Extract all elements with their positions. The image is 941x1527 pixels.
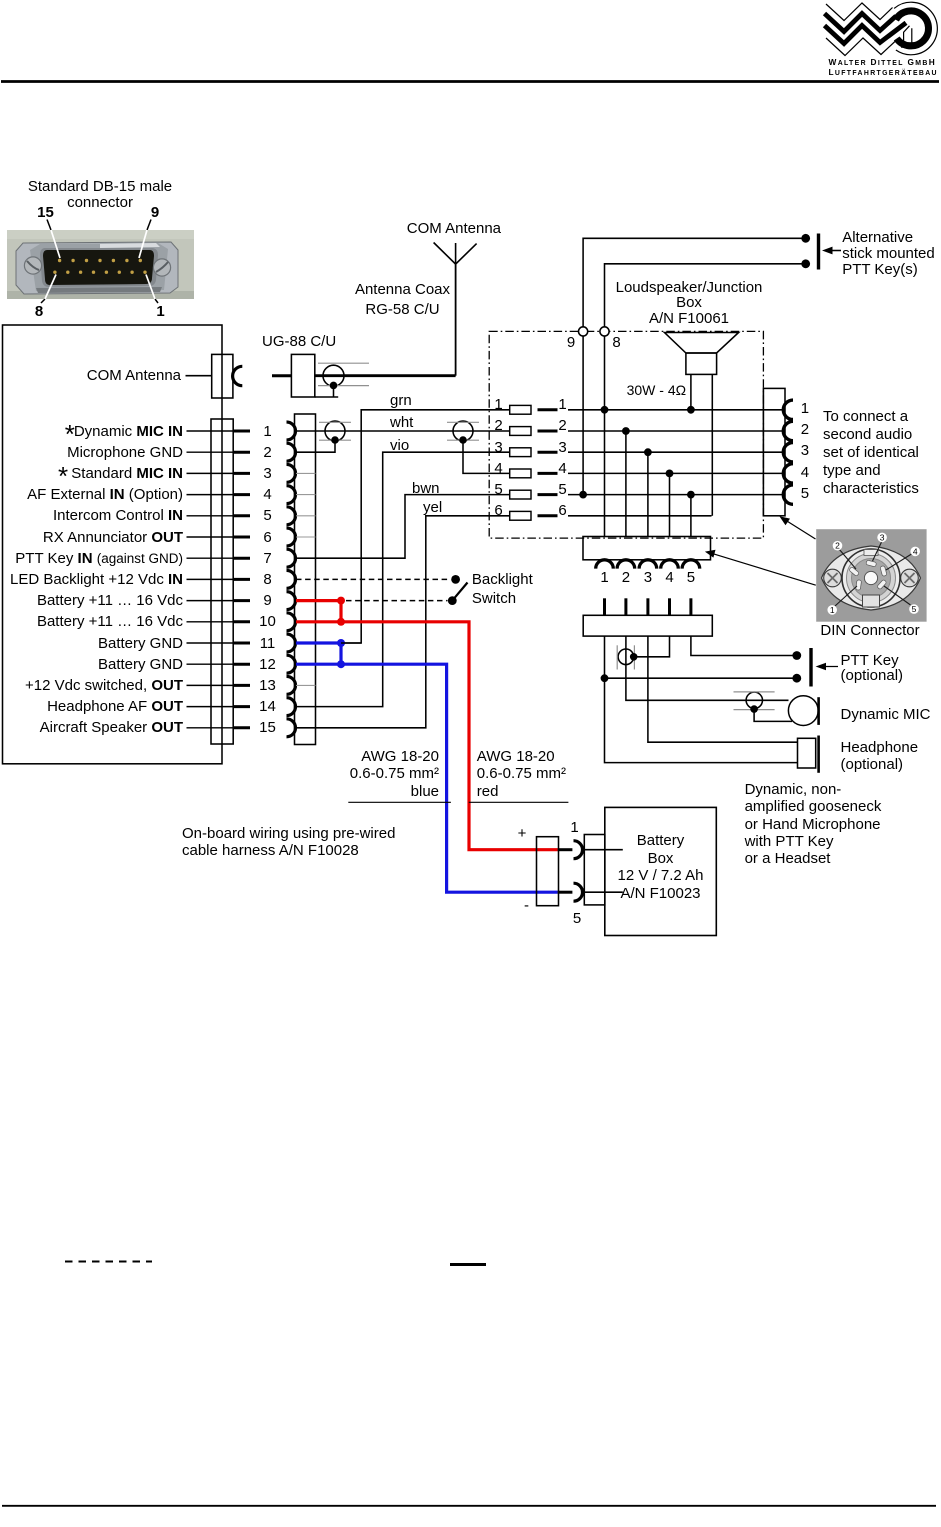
stick PTT key bar xyxy=(817,234,820,270)
wire vio junction 3 to pin 14 xyxy=(296,452,510,706)
wire shield pigtail to junction 4 xyxy=(463,440,510,473)
wire shield pigtail to pin2 xyxy=(296,440,335,452)
DIN tap 5 xyxy=(690,495,692,537)
label alternative stick PTT xyxy=(842,230,935,278)
battery box label xyxy=(590,832,731,903)
svg-text:2: 2 xyxy=(835,541,840,551)
DB-15 pin 8 stub xyxy=(233,578,250,581)
DB-15 female pin 3 unused stub xyxy=(296,472,316,474)
DIN keyway bottom xyxy=(863,595,880,607)
svg-text:5: 5 xyxy=(912,604,917,614)
second audio connector body xyxy=(763,388,785,515)
label Headphone optional xyxy=(841,739,919,774)
loudspeaker horn xyxy=(665,333,739,354)
photo screw right xyxy=(153,259,170,276)
wire PTT low xyxy=(605,677,797,679)
label on-board wiring xyxy=(182,826,395,860)
svg-text:4: 4 xyxy=(913,546,918,556)
page top rule xyxy=(1,80,939,83)
second audio connector numbers xyxy=(795,400,814,417)
caption standard DB-15 xyxy=(20,178,180,195)
DB-15 female socket 3 arc xyxy=(287,464,296,482)
battery socket arcs xyxy=(574,841,583,859)
backlight switch label xyxy=(472,570,533,609)
logo Walter Dittel WD mark xyxy=(826,3,893,21)
battery plus minus xyxy=(508,825,536,842)
loudspeaker wire right xyxy=(711,374,713,515)
legend solid sample xyxy=(450,1263,486,1266)
photo pin labels xyxy=(31,204,60,221)
junction row 3 xyxy=(568,451,784,453)
junction bulkhead pass-through 9 xyxy=(579,327,588,336)
wire dashed pin 9 branch to switch xyxy=(346,600,448,602)
DB-15 female socket 9 arc xyxy=(287,592,296,610)
junction box dash-dot border xyxy=(489,331,763,538)
label to connect second audio xyxy=(823,408,919,498)
DB-15 pin 15 stub xyxy=(233,726,250,729)
wire to stick PTT upper xyxy=(583,238,806,326)
battery pin lines xyxy=(583,849,623,851)
headphone symbol xyxy=(798,738,816,768)
PTT optional key bar xyxy=(809,648,812,687)
wire mic shield pigtail xyxy=(754,709,792,721)
DB-15 pin 11 stub xyxy=(233,642,250,645)
DB-15 female socket 2 arc xyxy=(287,443,296,461)
junction dots xyxy=(601,406,609,414)
COM antenna connector J-ANT xyxy=(212,354,233,398)
DB-15 pin 9 stub xyxy=(233,599,250,602)
DIN keyway top xyxy=(864,550,878,556)
label DIN Connector xyxy=(820,622,920,639)
backlight switch contact upper xyxy=(451,575,460,584)
DB-15 pin 1 lead line xyxy=(187,430,234,432)
DB-15 female socket 11 arc xyxy=(287,634,296,652)
photo leader line pin8 xyxy=(41,299,45,303)
DB-15 female socket 5 arc xyxy=(287,507,296,525)
DB-15 pin 4 stub xyxy=(233,493,250,496)
junction lug numbers left xyxy=(489,396,508,413)
wire yel pin 15 to junction 6 xyxy=(296,516,510,728)
DB-15 pin 14 stub xyxy=(233,705,250,708)
wire link grn vertical to blue strap xyxy=(341,642,361,644)
junction row 6 xyxy=(568,515,712,517)
wire red battery+ pin 10 to battery box xyxy=(296,622,558,850)
DB-15 female socket 8 arc xyxy=(287,570,296,588)
second audio socket arcs 1-5 xyxy=(783,400,793,419)
loudspeaker wire left xyxy=(690,374,692,409)
backlight switch lever xyxy=(452,583,467,601)
wire 8 down to DIN 1 xyxy=(604,336,606,537)
DIN screw right xyxy=(901,569,919,587)
wire 9 down to row 5 xyxy=(582,336,584,495)
label Antenna Coax xyxy=(323,280,483,320)
label dynamic gooseneck block xyxy=(745,781,882,867)
backlight switch contact lower xyxy=(448,596,457,605)
DB-15 female socket 1 arc xyxy=(287,422,296,440)
UG-88 shield twist symbol xyxy=(323,365,344,386)
junction row 5 xyxy=(568,494,784,496)
DIN number callout lines xyxy=(835,541,912,606)
photo leader line pin15 xyxy=(47,220,51,231)
wire grn junction 1 to battery-gnd strap xyxy=(341,410,510,643)
DB-15 pin 12 lead line xyxy=(187,663,234,665)
DB-15 pin 8 lead line xyxy=(187,578,234,580)
label UG-88 xyxy=(262,333,336,350)
PTT optional contact dots xyxy=(792,651,801,660)
DB-15 pin 7 stub xyxy=(233,557,250,560)
wire bwn pin 7 to junction 5 xyxy=(296,495,510,559)
DB-15 female pin 13 unused stub xyxy=(296,684,316,686)
DB-15 pin 6 stub xyxy=(233,536,250,539)
node DIN1 / PTT low junction xyxy=(601,674,609,682)
wire COM Antenna label leader xyxy=(186,375,212,377)
label AWG blue xyxy=(239,748,439,801)
label loudspeaker junction box xyxy=(609,280,769,327)
wire shield to DIN4 xyxy=(634,636,670,657)
DB-15 pin 12 stub xyxy=(233,663,250,666)
DIN tap 2 xyxy=(625,431,627,537)
DB-15 female socket 12 arc xyxy=(287,655,296,673)
DIN screw left xyxy=(824,569,842,587)
DB-15 pin 14 lead line xyxy=(187,706,234,708)
DIN plug body xyxy=(583,537,711,560)
wire to stick PTT lower xyxy=(605,264,806,327)
DIN number bubbles xyxy=(827,532,920,615)
DB-15 pin 2 stub xyxy=(233,451,250,454)
DB-15 pin 10 stub xyxy=(233,620,250,623)
DB-15 pin 6 lead line xyxy=(187,536,234,538)
DB-15 female socket 15 arc xyxy=(287,719,296,737)
antenna arms xyxy=(434,243,477,265)
DB-15 female pin 5 unused stub xyxy=(296,515,316,517)
DB-15 pin 10 lead line xyxy=(187,621,234,623)
DB-15 pin labels xyxy=(0,423,183,440)
page bottom rule xyxy=(2,1505,936,1507)
DB-15 female connector column xyxy=(295,414,316,745)
wire blue battery gnd pin 11 xyxy=(296,641,341,644)
DB-15 pin 1 stub xyxy=(233,430,250,433)
photo D opening xyxy=(43,250,154,285)
label Dynamic MIC xyxy=(841,706,931,723)
DIN mating stubs xyxy=(603,598,606,615)
DB-15 female socket 6 arc xyxy=(287,528,296,546)
AWG label rules xyxy=(348,801,451,803)
DIN connector photo xyxy=(816,529,926,622)
legend dashed sample xyxy=(65,1261,152,1263)
label 30W xyxy=(627,382,686,399)
svg-text:3: 3 xyxy=(880,532,885,542)
DB-15 pin numbers xyxy=(253,423,282,440)
battery cable shell xyxy=(537,837,559,906)
DB-15 pin 4 lead line xyxy=(187,494,234,496)
wire wht pin1 to junction 2 xyxy=(296,430,510,432)
junction terminal lugs and stubs rows 1-6 xyxy=(510,405,531,414)
callout arrow to second audio connector xyxy=(783,518,816,539)
battery pin numbers xyxy=(560,819,589,836)
DB-15 male connector column xyxy=(211,419,233,744)
battery box connector xyxy=(584,835,605,905)
coax wire to antenna xyxy=(315,374,456,377)
stick PTT arrow xyxy=(828,250,841,252)
DIN barrel rings xyxy=(842,549,900,607)
PTT optional arrow xyxy=(821,666,838,668)
DIN tap 4 xyxy=(669,473,671,536)
label COM Antenna (top) xyxy=(407,220,501,237)
DIN center hole xyxy=(864,571,877,584)
junction row 2 xyxy=(568,430,784,432)
transceiver outline box xyxy=(3,325,223,764)
wire DIN5 to PTT high xyxy=(691,636,797,655)
COM antenna socket arc xyxy=(233,366,243,385)
DB-15 connector photo xyxy=(7,230,194,299)
DB-15 female socket 10 arc xyxy=(287,613,296,631)
wire dashed pin 8 to backlight switch xyxy=(296,578,451,580)
photo screw left xyxy=(24,257,41,274)
photo leader line pin1 xyxy=(155,299,158,303)
wire DIN1 down to headphone common xyxy=(605,636,798,763)
DB-15 female pin 6 unused stub xyxy=(296,536,316,538)
wire DIN3 down to headphone hot xyxy=(648,636,798,742)
dynamic MIC twist symbol xyxy=(746,692,762,708)
DIN tap 3 xyxy=(647,452,649,536)
wire blue battery gnd pin 12 to battery box xyxy=(296,664,558,892)
DIN mating connector body xyxy=(583,615,712,636)
label AWG red xyxy=(477,748,566,801)
photo D-shell face xyxy=(40,248,158,287)
shield twist symbol on wht wire left xyxy=(325,421,345,441)
dynamic MIC symbol xyxy=(788,696,818,726)
DB-15 pin 3 stub xyxy=(233,472,250,475)
wire color labels xyxy=(390,392,412,409)
blue strap pin11-pin12 xyxy=(339,643,342,664)
DB-15 pin 7 lead line xyxy=(187,557,234,559)
DIN flange xyxy=(822,546,921,610)
svg-text:1: 1 xyxy=(830,605,835,615)
junction row 1 xyxy=(568,409,784,411)
label PTT Key optional xyxy=(841,653,904,684)
DIN plug pin arcs 1-5 xyxy=(596,560,614,569)
antenna stem xyxy=(455,264,457,376)
DIN pin slots xyxy=(849,560,887,590)
label COM Antenna (in box) xyxy=(31,367,181,384)
DB-15 pin 15 lead line xyxy=(187,727,234,729)
photo pins row bottom xyxy=(53,271,56,274)
shield twist symbol on wht wire right xyxy=(453,421,473,441)
DB-15 pin 5 lead line xyxy=(187,515,234,517)
wire red battery+ pin 9 xyxy=(296,599,341,602)
DB-15 pin 9 lead line xyxy=(187,600,234,602)
DB-15 female socket 7 arc xyxy=(287,549,296,567)
DB-15 female socket 4 arc xyxy=(287,486,296,504)
callout arrow to DIN plug xyxy=(710,553,816,585)
DB-15 female socket 14 arc xyxy=(287,698,296,716)
junction bulkhead pass-through 8 xyxy=(600,327,609,336)
loudspeaker magnet xyxy=(686,353,717,374)
junction row 4 xyxy=(568,472,784,474)
DB-15 pin 11 lead line xyxy=(187,642,234,644)
photo leader line pin9 xyxy=(147,220,151,231)
UG-88 coax stub xyxy=(272,374,291,377)
DB-15 female pin 4 unused stub xyxy=(296,494,316,496)
red strap pin9-pin10 xyxy=(339,601,342,622)
DB-15 pin 2 lead line xyxy=(187,451,234,453)
DB-15 pin 13 lead line xyxy=(187,684,234,686)
wire DIN2 down to dynamic MIC xyxy=(626,636,789,700)
battery wire stubs xyxy=(558,848,573,851)
shield twist on DIN2 wire xyxy=(618,649,634,665)
logo company name xyxy=(829,58,938,79)
photo metal bracket xyxy=(16,242,178,294)
UG-88 C/U connector body xyxy=(291,354,314,397)
photo pins row top xyxy=(53,259,147,274)
DB-15 pin 3 lead line xyxy=(187,472,234,474)
DIN plug numbers xyxy=(595,569,614,586)
bulkhead numbers 9 8 xyxy=(564,334,578,351)
stick PTT contact dots xyxy=(801,234,810,243)
junction lug numbers right xyxy=(553,396,572,413)
battery box xyxy=(605,807,717,935)
DB-15 pin 13 stub xyxy=(233,684,250,687)
DB-15 female socket 13 arc xyxy=(287,676,296,694)
DB-15 pin 5 stub xyxy=(233,514,250,517)
